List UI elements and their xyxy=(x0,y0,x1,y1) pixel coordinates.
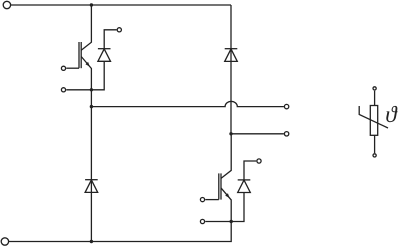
terminal AC out (lower) xyxy=(284,132,288,136)
transistor T1 emitter with arrow xyxy=(81,57,91,107)
wire bottom rail (DC-) xyxy=(9,222,231,242)
wire D1 cathode to terminal xyxy=(104,30,116,49)
transistor T2 (IGBT, bottom arm) gate bar xyxy=(218,173,220,199)
wire T2 collector rail xyxy=(231,133,284,135)
terminal T2 gate xyxy=(200,198,204,202)
node AC mid-rail junction xyxy=(90,105,93,108)
node T1 emitter / D1 anode junction xyxy=(90,88,93,91)
diode D3 (lower left arm) xyxy=(85,180,98,193)
wire T1 collector xyxy=(81,5,91,50)
terminal P1 (DC+ top left) xyxy=(3,1,10,8)
wire left leg vertical (T1 emitter to bottom rail) xyxy=(90,107,92,242)
terminal T1 aux emitter xyxy=(61,88,65,92)
wire top-right branch (D2) xyxy=(230,5,232,134)
diode D2 (upper right arm) xyxy=(225,49,238,62)
transistor T1 body bar xyxy=(80,42,82,68)
diode D1 (antiparallel to T1) xyxy=(98,49,111,62)
terminal T1 gate xyxy=(61,66,65,70)
node bottom rail junction xyxy=(90,240,93,243)
wire D1 anode xyxy=(91,61,104,90)
node top rail / T1 collector junction xyxy=(90,3,93,6)
wire thermistor bottom lead xyxy=(374,135,376,153)
wire top rail (DC+) xyxy=(11,4,231,6)
label theta (temperature) xyxy=(386,106,397,122)
wire thermistor top lead xyxy=(374,91,376,106)
wire T1 auxiliary emitter xyxy=(66,89,91,91)
node T2 collector junction xyxy=(229,132,232,135)
transistor T2 body bar xyxy=(220,173,222,199)
terminal thermistor top xyxy=(373,87,376,90)
terminal thermistor bottom xyxy=(373,154,376,157)
transistor T2 emitter with arrow xyxy=(221,188,231,222)
terminal D4 cathode aux xyxy=(257,159,261,163)
terminal N1 (DC- bottom left) xyxy=(1,238,8,245)
wire T2 collector xyxy=(221,134,231,179)
transistor T1 (IGBT, top arm) gate bar xyxy=(78,42,80,68)
thermistor R1 body xyxy=(370,106,377,136)
wire T1 gate lead xyxy=(66,67,79,69)
thermistor R1 characteristic diagonal xyxy=(359,106,388,128)
wire T2 gate lead xyxy=(205,199,219,201)
wire mid rail with crossover hop xyxy=(91,101,284,106)
terminal D1 cathode aux xyxy=(117,28,121,32)
wire D4 cathode to terminal xyxy=(244,161,256,180)
diode D4 (antiparallel to T2) xyxy=(238,180,251,193)
wire T2 auxiliary emitter xyxy=(205,221,231,223)
terminal AC out (upper) xyxy=(284,104,288,108)
node T2 emitter / D4 anode junction xyxy=(230,220,233,223)
wire D4 anode xyxy=(231,193,244,222)
terminal T2 aux emitter xyxy=(200,219,204,223)
